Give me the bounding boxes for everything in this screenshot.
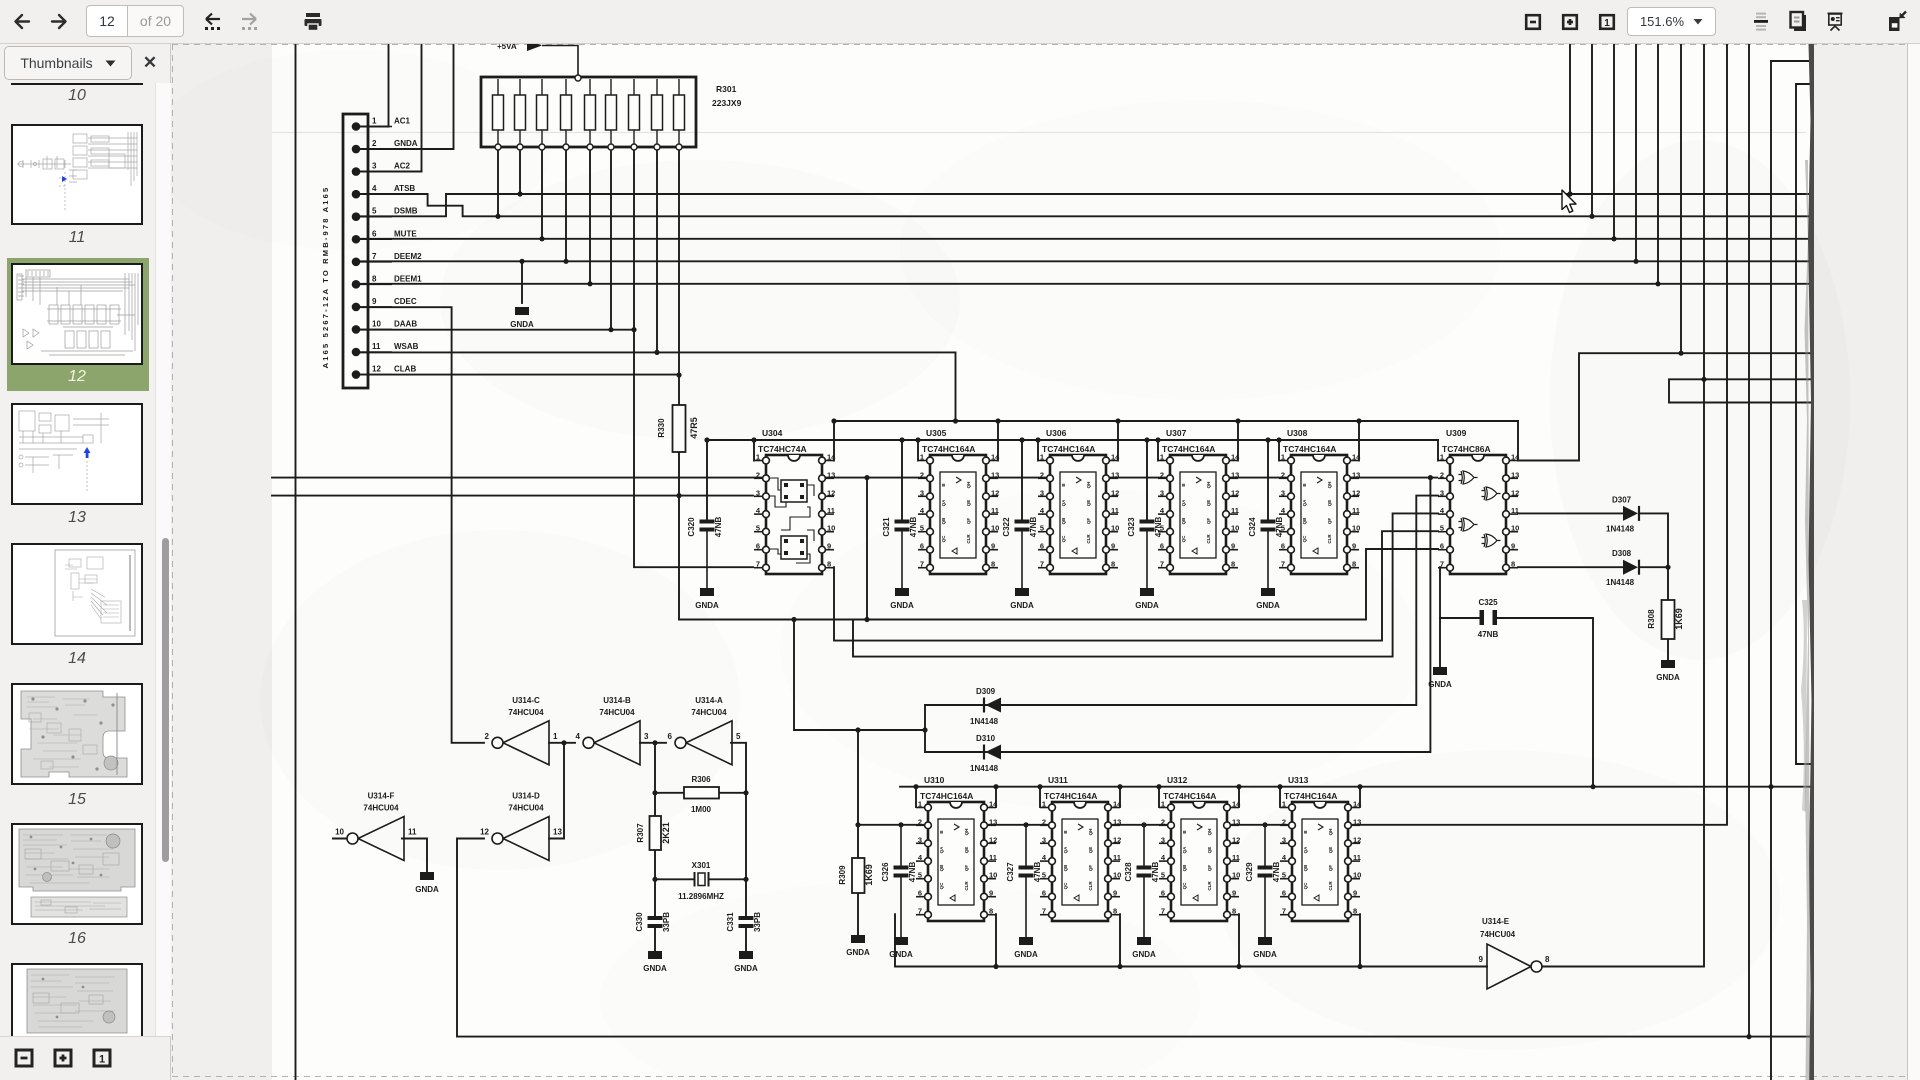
- svg-text:1K69: 1K69: [864, 864, 874, 886]
- thumbnail page 16: [11, 823, 143, 925]
- wire pin1 drop x=918: [917, 440, 919, 461]
- presentation icon: [1826, 0, 1844, 44]
- wire pin2 row bus top ICs: [272, 477, 1437, 479]
- zoom in button: [1559, 0, 1581, 44]
- ground GNDA under C330: [643, 951, 667, 973]
- wire bottom drop x=1159: [1158, 787, 1160, 807]
- svg-text:U314-C: U314-C: [512, 696, 540, 705]
- wire ATSB bus with crossover: [356, 44, 1810, 216]
- svg-text:47NB: 47NB: [1478, 630, 1499, 639]
- svg-text:GNDA: GNDA: [643, 964, 667, 973]
- svg-text:47NB: 47NB: [1275, 517, 1284, 538]
- svg-text:TC74HC164A: TC74HC164A: [1283, 444, 1336, 454]
- svg-text:47NB: 47NB: [1151, 862, 1160, 883]
- thumbnail page 15: [11, 683, 143, 785]
- capacitor C329 47NB: [1245, 825, 1281, 937]
- capacitor C320 47NB: [687, 517, 723, 588]
- svg-text:C326: C326: [881, 862, 890, 882]
- svg-text:U309: U309: [1446, 428, 1467, 438]
- wire CLAB: [356, 374, 679, 376]
- svg-text:1N4148: 1N4148: [1606, 578, 1635, 587]
- wire pin14 drop x=1118: [1117, 421, 1119, 461]
- ground GNDA under C322: [1010, 588, 1034, 610]
- svg-text:47NB: 47NB: [908, 862, 917, 883]
- svg-text:CLAB: CLAB: [394, 365, 416, 374]
- svg-text:11.2896MHZ: 11.2896MHZ: [678, 892, 724, 901]
- wire cap feed x=1147: [1146, 440, 1148, 519]
- svg-text:TC74HC164A: TC74HC164A: [920, 791, 973, 801]
- svg-text:U310: U310: [924, 775, 945, 785]
- svg-text:TC74HC164A: TC74HC164A: [1162, 444, 1215, 454]
- inverter U314-D: [480, 792, 562, 861]
- diode D307 1N4148: [1606, 495, 1639, 533]
- wire cap feed x=902: [901, 440, 903, 519]
- wire pin14 drop x=998: [997, 421, 999, 461]
- svg-text:R307: R307: [636, 823, 645, 843]
- resistor R306 1M00: [684, 775, 719, 814]
- svg-text:11: 11: [372, 342, 381, 351]
- resistor R309 1K69: [838, 858, 874, 893]
- diode D308 1N4148: [1606, 549, 1639, 587]
- IC U307 TC74HC164A: [1158, 428, 1240, 574]
- wire R301 lead x=590: [589, 147, 591, 284]
- svg-text:AC2: AC2: [394, 162, 411, 171]
- IC U313 TC74HC164A: [1280, 775, 1362, 921]
- wire MUTE bus: [356, 44, 1810, 239]
- wire R301 lead 7 continues down: [634, 330, 753, 568]
- svg-text:U311: U311: [1048, 775, 1068, 785]
- svg-text:74HCU04: 74HCU04: [508, 804, 544, 813]
- svg-text:47NB: 47NB: [909, 517, 918, 538]
- continuous view icon: [1753, 0, 1769, 44]
- svg-text:C329: C329: [1245, 862, 1254, 882]
- wire D310 net: [925, 478, 1430, 752]
- capacitor C324 47NB: [1248, 517, 1284, 588]
- wire pin1 drop x=754: [753, 440, 755, 461]
- ground GNDA under C323: [1135, 588, 1159, 610]
- svg-text:GNDA: GNDA: [1014, 950, 1038, 959]
- capacitor C327 47NB: [1006, 825, 1042, 937]
- ground GNDA under C324: [1256, 588, 1280, 610]
- svg-text:1: 1: [553, 732, 558, 741]
- svg-text:11: 11: [408, 828, 417, 837]
- wire U314-D output: [457, 838, 484, 840]
- svg-text:1N4148: 1N4148: [970, 764, 999, 773]
- resistor R307 2K21: [636, 816, 671, 850]
- wire bottom drop x=1280: [1279, 787, 1281, 807]
- wire cap feed x=1022: [1021, 440, 1023, 519]
- wire D309 net: [925, 496, 1438, 705]
- wire pin1 drop x=1438: [1437, 440, 1439, 461]
- svg-text:C331: C331: [726, 912, 735, 932]
- print icon: [302, 0, 324, 44]
- capacitor C326 47NB: [881, 825, 917, 937]
- svg-text:1N4148: 1N4148: [970, 717, 999, 726]
- svg-text:D310: D310: [976, 734, 996, 743]
- wire pin3 row line left: [272, 495, 753, 497]
- thumbnail page 13: [11, 403, 143, 505]
- svg-text:1K69: 1K69: [1674, 608, 1684, 630]
- wire U314 lower link: [794, 620, 925, 859]
- svg-text:R330: R330: [657, 418, 666, 438]
- wire pin1 drop x=1158: [1157, 440, 1159, 461]
- wire bottom pin8 drop x=1360: [1359, 914, 1361, 966]
- ground GNDA under R309: [846, 935, 870, 957]
- page background: [272, 44, 1812, 1080]
- svg-text:MUTE: MUTE: [394, 229, 417, 238]
- svg-text:47NB: 47NB: [1154, 517, 1163, 538]
- wire AC1 to top: [356, 44, 389, 127]
- wire pin14 drop x=1518: [1517, 421, 1519, 461]
- svg-text:A165 5267-12A TO RMB-978 A165: A165 5267-12A TO RMB-978 A165: [321, 186, 330, 369]
- wire R301 lead x=542: [541, 147, 543, 239]
- svg-text:GNDA: GNDA: [1428, 680, 1452, 689]
- wire bottom drop x=996: [995, 787, 997, 807]
- resistor network R301 223JX9: [481, 77, 742, 150]
- wire CLAB junction to R330: [678, 375, 680, 405]
- inverter U314-E: [1479, 917, 1550, 989]
- wire pin14 drop x=1359: [1358, 421, 1360, 461]
- ground GNDA under C326: [889, 937, 913, 959]
- svg-text:3: 3: [644, 732, 649, 741]
- svg-text:TC74HC164A: TC74HC164A: [1042, 444, 1095, 454]
- inverter U314-B: [576, 696, 649, 765]
- svg-text:AC1: AC1: [394, 117, 411, 126]
- svg-text:1M00: 1M00: [691, 805, 712, 814]
- scan edge right: [1801, 44, 1814, 1080]
- svg-text:TC74HC86A: TC74HC86A: [1442, 444, 1491, 454]
- fit page button: [1596, 0, 1618, 44]
- wire X301 net: [655, 878, 746, 880]
- wire diode link vertical: [924, 705, 926, 752]
- wire bottom pin8 drop x=1120: [1119, 914, 1121, 966]
- wire GNDA pin2 to top: [356, 44, 454, 149]
- svg-text:R301: R301: [716, 84, 737, 94]
- svg-text:33PB: 33PB: [662, 912, 671, 932]
- svg-text:47NB: 47NB: [1272, 862, 1281, 883]
- svg-text:33PB: 33PB: [753, 912, 762, 932]
- svg-text:C321: C321: [882, 517, 891, 537]
- wire bottom drop x=1360: [1359, 787, 1361, 807]
- svg-text:2: 2: [372, 139, 377, 148]
- svg-text:TC74HC74A: TC74HC74A: [758, 444, 807, 454]
- wire R301 lead x=657: [656, 147, 658, 352]
- svg-text:R309: R309: [838, 865, 847, 885]
- IC U305 TC74HC164A: [918, 428, 1000, 574]
- svg-text:2: 2: [485, 732, 490, 741]
- svg-text:GNDA: GNDA: [889, 950, 913, 959]
- ground GNDA under R308: [1656, 660, 1680, 682]
- wire R301 lead x=520: [519, 147, 521, 194]
- resistor R330 47R5: [657, 405, 699, 452]
- svg-text:GNDA: GNDA: [1132, 950, 1156, 959]
- wire bottom drop x=916: [915, 787, 917, 807]
- svg-text:C330: C330: [635, 912, 644, 932]
- thumbnail page 11: [11, 124, 143, 225]
- svg-text:U314-D: U314-D: [512, 792, 540, 801]
- capacitor C330 33PB: [635, 912, 671, 932]
- ground GNDA under C331: [734, 951, 758, 973]
- inverter U314-C: [485, 696, 558, 765]
- wire R301 lead x=679: [678, 147, 680, 375]
- ground GNDA under C329: [1253, 937, 1277, 959]
- svg-text:1: 1: [1604, 18, 1610, 29]
- wire GNDA stub below network: [521, 261, 523, 303]
- wire R306 leads: [655, 792, 746, 794]
- wire pin2 bus bottom ICs: [858, 44, 1727, 825]
- svg-text:2K21: 2K21: [661, 822, 671, 844]
- inverter U314-A: [668, 696, 741, 765]
- svg-text:D309: D309: [976, 687, 996, 696]
- wire right horizontals: [1669, 379, 1813, 402]
- history back: [200, 0, 226, 44]
- svg-text:10: 10: [372, 319, 381, 328]
- svg-text:GNDA: GNDA: [1656, 673, 1680, 682]
- wire DEEM1 bus: [356, 44, 1810, 284]
- wire R301 lead x=566: [565, 147, 567, 261]
- svg-text:GNDA: GNDA: [1256, 601, 1280, 610]
- svg-text:R306: R306: [691, 775, 711, 784]
- svg-text:1: 1: [99, 1054, 105, 1066]
- wire R309 gnd: [857, 893, 859, 935]
- thumbnail page 10 (partial): [11, 40, 143, 85]
- svg-text:6: 6: [372, 229, 377, 238]
- svg-text:GNDA: GNDA: [846, 948, 870, 957]
- wire R301 lead x=498: [497, 147, 499, 216]
- svg-text:CDEC: CDEC: [394, 297, 417, 306]
- wire pin14 drop x=1238: [1237, 421, 1239, 461]
- ground GNDA under C320: [695, 588, 719, 610]
- capacitor C322 47NB: [1002, 517, 1038, 588]
- IC U310 TC74HC164A: [916, 775, 998, 921]
- svg-text:C327: C327: [1006, 862, 1015, 882]
- svg-text:GNDA: GNDA: [415, 885, 439, 894]
- wire y657 bus: [853, 513, 1438, 656]
- svg-text:4: 4: [576, 732, 581, 741]
- IC U309 TC74HC86A: [1438, 428, 1520, 574]
- diode D309 1N4148: [970, 687, 1001, 726]
- IC U304 TC74HC74A: [754, 428, 836, 574]
- svg-text:3: 3: [372, 162, 377, 171]
- svg-text:6: 6: [668, 732, 673, 741]
- svg-text:U304: U304: [762, 428, 783, 438]
- svg-text:X301: X301: [692, 861, 711, 870]
- svg-text:74HCU04: 74HCU04: [599, 708, 635, 717]
- ground GNDA under C325: [1428, 667, 1452, 689]
- IC U312 TC74HC164A: [1159, 775, 1241, 921]
- capacitor C325 47NB: [1478, 598, 1499, 639]
- ground GNDA under C328: [1132, 937, 1156, 959]
- wire cap feed x=1268: [1267, 440, 1269, 519]
- wire WSAB: [356, 352, 956, 421]
- wire R301 lead x=611: [610, 147, 612, 330]
- svg-text:U307: U307: [1166, 428, 1187, 438]
- wire bottom pin8 drop x=1239: [1238, 914, 1240, 966]
- svg-text:8: 8: [372, 274, 377, 283]
- svg-text:GNDA: GNDA: [510, 320, 534, 329]
- wire R301 lead x=634: [633, 147, 635, 330]
- IC U306 TC74HC164A: [1038, 428, 1120, 574]
- svg-text:47NB: 47NB: [1033, 862, 1042, 883]
- crystal X301 11.2896MHZ: [678, 861, 724, 901]
- power +5VA: [497, 40, 581, 81]
- previous page arrow: [10, 0, 34, 44]
- resistor R308 1K69: [1647, 600, 1684, 639]
- wire DAAB: [356, 329, 634, 331]
- svg-text:9: 9: [372, 297, 377, 306]
- svg-text:223JX9: 223JX9: [712, 98, 742, 108]
- next page arrow: [47, 0, 71, 44]
- svg-text:DEEM2: DEEM2: [394, 252, 422, 261]
- thumbnail page 17 (partial): [11, 963, 143, 1036]
- wire pin14 drop x=834: [833, 421, 835, 461]
- wire right bus B: [1542, 44, 1704, 967]
- wire DEEM2 bus: [356, 44, 1810, 261]
- svg-text:1: 1: [372, 117, 377, 126]
- wire bottom drop x=1040: [1039, 787, 1041, 807]
- wire bottom drop x=1120: [1119, 787, 1121, 807]
- svg-text:TC74HC164A: TC74HC164A: [922, 444, 975, 454]
- unmaximize icon: [1886, 0, 1908, 44]
- svg-text:TC74HC164A: TC74HC164A: [1163, 791, 1216, 801]
- svg-text:D307: D307: [1612, 495, 1632, 504]
- svg-text:TC74HC164A: TC74HC164A: [1044, 791, 1097, 801]
- svg-text:U314-E: U314-E: [1482, 917, 1510, 926]
- wire y640 bus: [834, 531, 1438, 640]
- svg-text:5: 5: [372, 207, 377, 216]
- svg-text:GNDA: GNDA: [394, 139, 418, 148]
- history forward (disabled): [236, 0, 262, 44]
- svg-text:47R5: 47R5: [689, 417, 699, 439]
- svg-text:U313: U313: [1288, 775, 1309, 785]
- svg-text:C320: C320: [687, 517, 696, 537]
- svg-text:4: 4: [372, 184, 377, 193]
- svg-text:74HCU04: 74HCU04: [691, 708, 727, 717]
- svg-text:U308: U308: [1287, 428, 1308, 438]
- IC U311 TC74HC164A: [1040, 775, 1122, 921]
- wire pin1 drop x=1279: [1278, 440, 1280, 461]
- svg-text:ATSB: ATSB: [394, 184, 415, 193]
- svg-text:GNDA: GNDA: [695, 601, 719, 610]
- svg-text:C328: C328: [1124, 862, 1133, 882]
- capacitor C321 47NB: [882, 517, 918, 588]
- svg-text:GNDA: GNDA: [1135, 601, 1159, 610]
- svg-text:8: 8: [1545, 955, 1550, 964]
- svg-text:10: 10: [335, 828, 344, 837]
- svg-text:C325: C325: [1478, 598, 1498, 607]
- dual page icon: [1789, 0, 1807, 44]
- wire rail above ICs y421: [834, 420, 1518, 422]
- wire rail above ICs y440: [707, 439, 1438, 441]
- wire x867 link: [866, 478, 868, 620]
- svg-text:7: 7: [372, 252, 377, 261]
- svg-text:GNDA: GNDA: [734, 964, 758, 973]
- wire right box outer: [1771, 61, 1813, 1080]
- wire D308 net: [1518, 566, 1668, 568]
- capacitor C323 47NB: [1127, 517, 1163, 588]
- IC U308 TC74HC164A: [1279, 428, 1361, 574]
- capacitor C328 47NB: [1124, 825, 1160, 937]
- svg-text:C324: C324: [1248, 517, 1257, 537]
- svg-text:U314-F: U314-F: [368, 792, 395, 801]
- svg-text:U314-B: U314-B: [603, 696, 631, 705]
- svg-text:12: 12: [372, 365, 381, 374]
- wire right box inner: [1796, 84, 1813, 764]
- inverter U314-F: [335, 792, 417, 861]
- svg-text:U314-A: U314-A: [695, 696, 723, 705]
- svg-text:9: 9: [1479, 955, 1484, 964]
- svg-text:TC74HC164A: TC74HC164A: [1284, 791, 1337, 801]
- thumbnail page 12 (selected): [11, 263, 143, 365]
- svg-text:GNDA: GNDA: [1253, 950, 1277, 959]
- ground GNDA under C321: [890, 588, 914, 610]
- svg-text:47NB: 47NB: [1029, 517, 1038, 538]
- svg-text:GNDA: GNDA: [1010, 601, 1034, 610]
- wire U314-F output to gnd: [333, 839, 427, 873]
- svg-text:U312: U312: [1167, 775, 1188, 785]
- ground GNDA under U314-F: [415, 872, 439, 894]
- ground GNDA below network: [510, 307, 534, 329]
- wire D307 net: [1518, 513, 1668, 600]
- wire cap feed x=707: [706, 440, 708, 519]
- wire inverter chain: [549, 743, 746, 917]
- svg-text:C322: C322: [1002, 517, 1011, 537]
- wire pin1 drop x=1038: [1037, 440, 1039, 461]
- wire R308 gnd: [1667, 639, 1669, 660]
- svg-text:12: 12: [480, 828, 489, 837]
- svg-text:74HCU04: 74HCU04: [363, 804, 399, 813]
- wire C325 net: [1440, 618, 1593, 787]
- svg-text:U305: U305: [926, 428, 947, 438]
- svg-text:C323: C323: [1127, 517, 1136, 537]
- wire bottom long line: [457, 839, 1813, 1037]
- wire left border vertical: [295, 44, 297, 1080]
- svg-text:GNDA: GNDA: [890, 601, 914, 610]
- svg-text:5: 5: [736, 732, 741, 741]
- svg-text:13: 13: [553, 828, 562, 837]
- mouse cursor: [1562, 190, 1576, 213]
- capacitor C331 33PB: [726, 912, 762, 932]
- wire U309 pin7 to C325: [1439, 567, 1441, 618]
- svg-text:U306: U306: [1046, 428, 1067, 438]
- wire bottom drop x=1239: [1238, 787, 1240, 807]
- ground GNDA under C327: [1014, 937, 1038, 959]
- diode D310 1N4148: [970, 734, 1001, 773]
- scan fold line: [272, 132, 1806, 134]
- svg-text:1N4148: 1N4148: [1606, 524, 1635, 533]
- svg-text:74HCU04: 74HCU04: [1480, 930, 1516, 939]
- svg-text:DSMB: DSMB: [394, 207, 418, 216]
- svg-text:DEEM1: DEEM1: [394, 274, 422, 283]
- svg-text:R308: R308: [1647, 609, 1656, 629]
- zoom out button: [1522, 0, 1544, 44]
- wire CDEC to U314-C: [356, 307, 484, 743]
- svg-text:+5VA: +5VA: [497, 44, 517, 51]
- wire right bus A: [1518, 44, 1813, 461]
- wire bottom pin8 drop x=996: [995, 914, 997, 966]
- wire C330 C331 gnd leads: [655, 928, 746, 952]
- svg-text:WSAB: WSAB: [394, 342, 419, 351]
- svg-text:47NB: 47NB: [714, 517, 723, 538]
- wire R330 bottom to y619 bus: [679, 452, 1438, 620]
- wire DSMB bus with crossover: [356, 44, 1810, 216]
- svg-text:D308: D308: [1612, 549, 1632, 558]
- svg-text:DAAB: DAAB: [394, 319, 417, 328]
- thumbnail page 14: [11, 543, 143, 645]
- wire rail above bottom ICs y786: [900, 786, 1813, 788]
- wire U314-E input line: [895, 914, 1487, 966]
- wire right bus C: [1748, 44, 1750, 1037]
